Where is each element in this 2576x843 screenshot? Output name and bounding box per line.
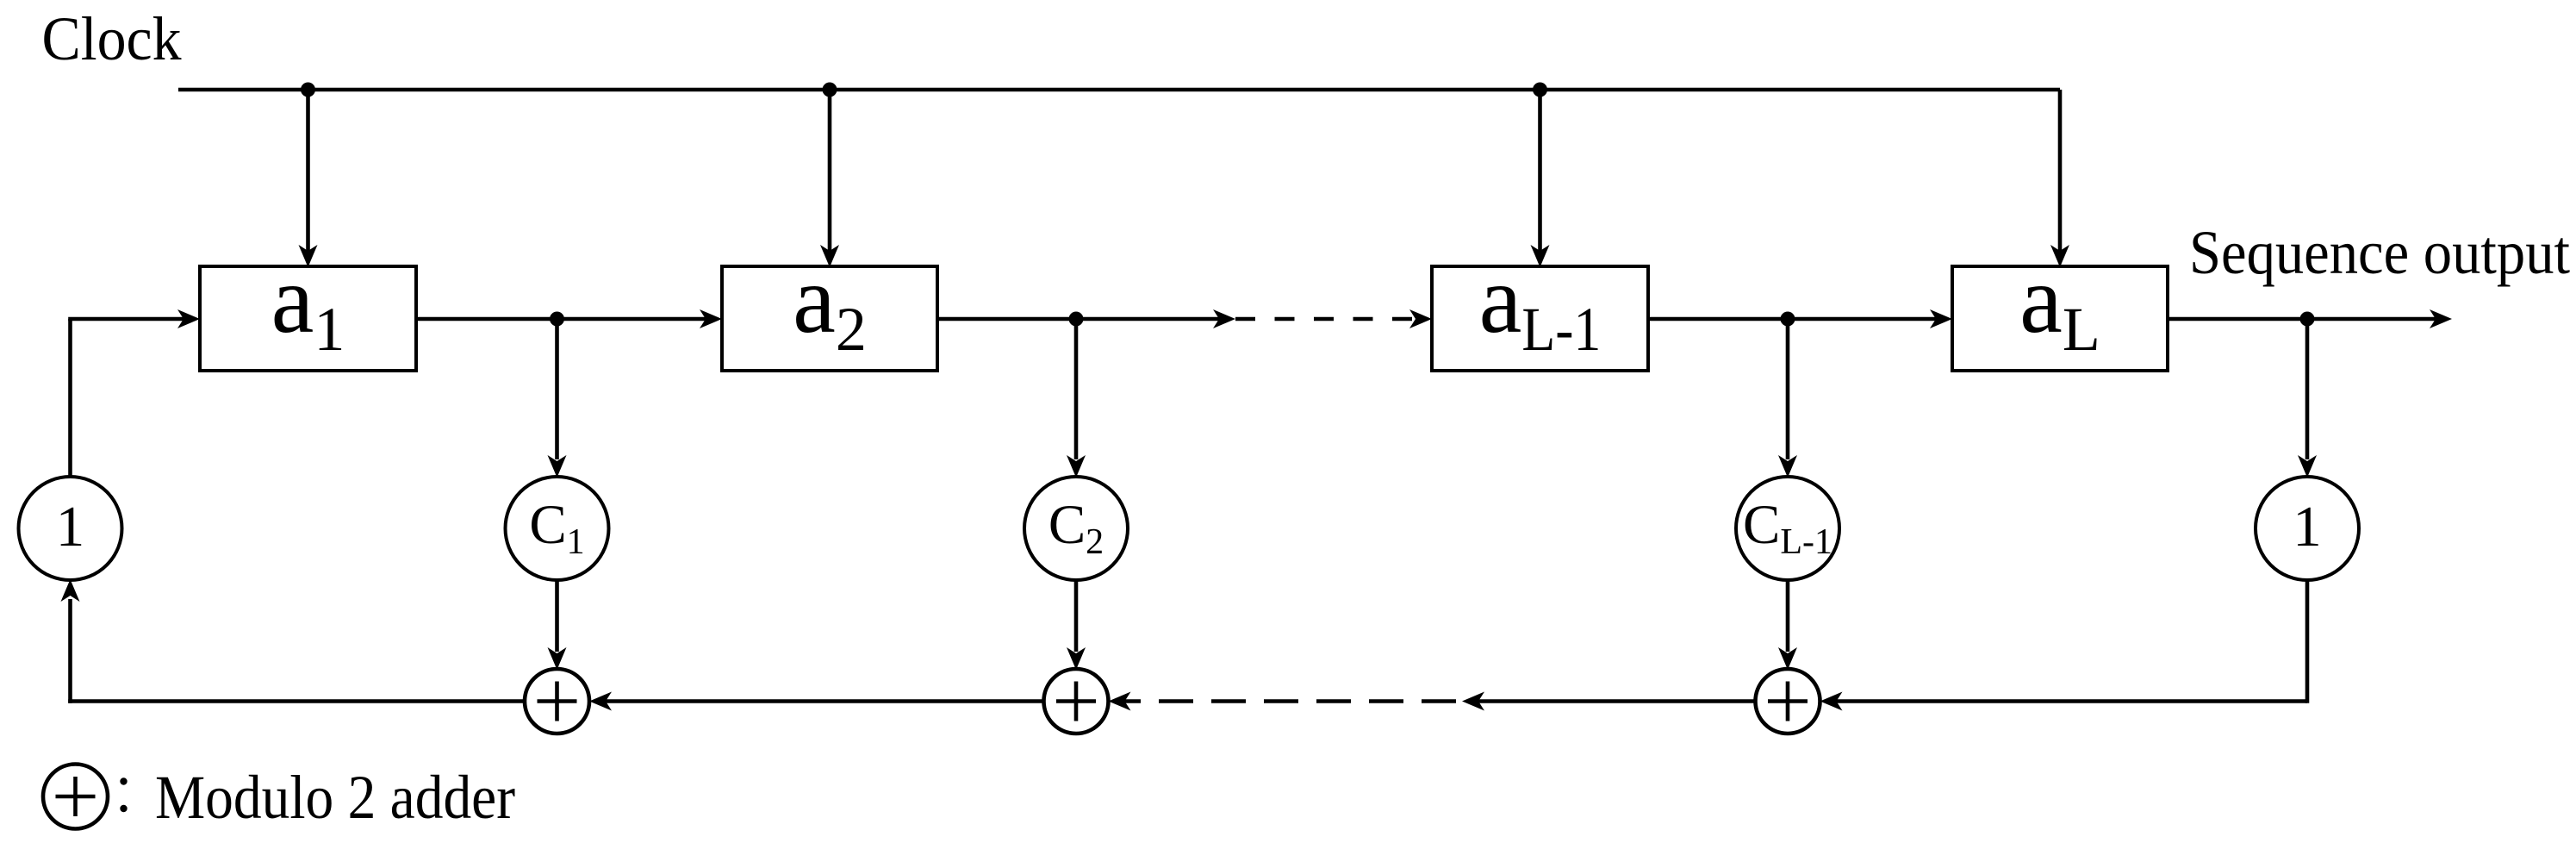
wire: bottom bus from adder A2 to adder A1 bbox=[594, 699, 1044, 703]
wire: bottom dashed ellipsis bbox=[1120, 699, 1456, 703]
legend colon bbox=[120, 777, 127, 784]
coefficient C1 circle bbox=[506, 477, 609, 580]
register box a2 bbox=[722, 266, 937, 371]
coefficient CL-1 circle bbox=[1736, 477, 1839, 580]
wire: feedback riser into a1 bbox=[68, 319, 72, 478]
modulo-2 adder A2 bbox=[1044, 669, 1109, 734]
wire: clock drop to a2 bbox=[828, 90, 832, 261]
register box aL bbox=[1952, 266, 2168, 371]
wire: clock bus bbox=[178, 88, 2060, 92]
wire: dashed ellipsis to aL-1 bbox=[1235, 317, 1413, 322]
wire: clock drop to aL-1 bbox=[1538, 90, 1542, 261]
wire: tap down to CL-1 bbox=[1786, 319, 1790, 459]
wire: bottom bus solid from adder A3 bbox=[1467, 699, 1756, 703]
register box aL-1 bbox=[1432, 266, 1648, 371]
svg-text:1: 1 bbox=[56, 495, 85, 559]
legend modulo-2 adder symbol bbox=[43, 765, 108, 829]
wire: clock drop to a1 bbox=[306, 90, 310, 261]
modulo-2 adder A3 bbox=[1756, 669, 1820, 734]
wire: bottom bus right segment bbox=[1826, 699, 2308, 703]
wire: a1 to a2 bbox=[416, 317, 717, 322]
coefficient 1 (right) circle bbox=[2256, 477, 2359, 580]
wire: tap down to right 1 bbox=[2305, 319, 2310, 459]
node clock junction 3 bbox=[1533, 83, 1547, 97]
svg-text:1: 1 bbox=[2293, 495, 2322, 559]
wire: adder 1 input from above bbox=[555, 580, 559, 652]
node tap junction after a1 bbox=[550, 312, 564, 327]
svg-text:Sequence output: Sequence output bbox=[2189, 218, 2570, 287]
node tap junction after a2 bbox=[1069, 312, 1084, 327]
node tap junction after aL-1 bbox=[1781, 312, 1795, 327]
wire: a2 to dashes bbox=[937, 317, 1230, 322]
wire: bottom bus from adder A1 to left corner bbox=[68, 699, 525, 703]
wire: adder 2 input from above bbox=[1074, 580, 1079, 652]
modulo-2 adder A1 bbox=[525, 669, 589, 734]
wire: feedback up into left 1 circle bbox=[68, 599, 72, 703]
coefficient C2 circle bbox=[1024, 477, 1128, 580]
wire: tap down to C2 bbox=[1074, 319, 1079, 459]
coefficient 1 (left feedback) circle bbox=[19, 477, 122, 580]
wire: adder L-1 input from above bbox=[1786, 580, 1790, 652]
node output junction bbox=[2300, 312, 2315, 327]
wire: aL-1 to aL bbox=[1648, 317, 1947, 322]
wire: clock drop to aL bbox=[2058, 90, 2063, 261]
node clock junction 1 bbox=[301, 83, 315, 97]
wire: right 1 circle down to feedback bus bbox=[2305, 580, 2310, 703]
svg-text:Clock: Clock bbox=[42, 4, 182, 73]
node clock junction 2 bbox=[823, 83, 837, 97]
svg-text:Modulo 2 adder: Modulo 2 adder bbox=[155, 763, 515, 832]
wire: aL to sequence output bbox=[2168, 317, 2447, 322]
register box a1 bbox=[200, 266, 416, 371]
wire: tap down to C1 bbox=[555, 319, 559, 459]
